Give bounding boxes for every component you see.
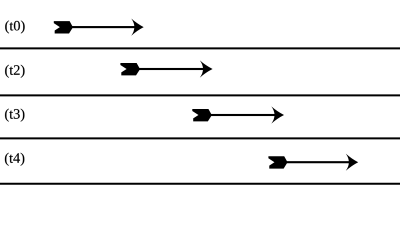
separator line 4 bbox=[0, 183, 400, 185]
separator line 2 bbox=[0, 94, 400, 96]
arrow at t3 : fletching, shaft, head bbox=[192, 106, 284, 123]
separator line 3 bbox=[0, 137, 400, 139]
arrow at t2 : fletching, shaft, head bbox=[120, 60, 212, 77]
row label (t2) bbox=[5, 65, 24, 78]
row label (t3) bbox=[5, 109, 24, 122]
row label (t4) bbox=[5, 153, 24, 166]
arrow at t4 : fletching, shaft, head bbox=[268, 154, 358, 171]
arrow at t0 : fletching, shaft, head bbox=[54, 19, 144, 36]
separator line 1 bbox=[0, 47, 400, 49]
row label (t0) bbox=[5, 20, 24, 33]
